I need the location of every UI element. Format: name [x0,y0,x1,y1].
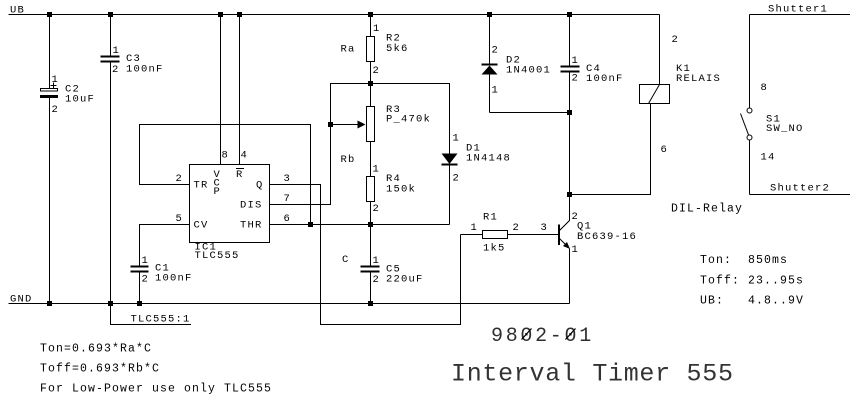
junction GND/C5 [368,301,373,306]
svg-text:DIS: DIS [240,200,263,212]
svg-text:2: 2 [373,203,381,215]
svg-text:2: 2 [492,45,500,57]
svg-text:2: 2 [373,65,381,77]
junction UB/pin4 [237,12,242,17]
svg-text:4: 4 [241,150,249,162]
wire node to Q1 collector [560,195,570,231]
transistor Q1 base bar [558,225,560,246]
wire D1 cathode to THR line [449,166,451,225]
svg-text:1: 1 [142,255,150,267]
junction node Ra/Rb at R2 bottom [368,81,373,86]
junction R4/C5/THR [368,222,373,227]
relay K1 coil box [640,85,670,104]
junction GND/C1 [137,301,142,306]
capacitor C2 plate 2 [40,95,58,98]
wire relay K1 pin 6 down to node [570,104,651,195]
svg-text:P: P [214,186,222,198]
wire Shutter1 net [750,14,850,16]
svg-text:Toff=0.693*Rb*C: Toff=0.693*Rb*C [40,363,160,376]
wire GND rail [9,303,570,305]
svg-text:Ra: Ra [341,44,356,56]
junction C4 line / relay pin 6 [567,192,572,197]
svg-text:14: 14 [761,152,776,164]
switch S1 bottom contact circle [747,135,752,140]
svg-text:C: C [342,254,350,266]
wire C4/D2 node to relay node [569,113,571,195]
wire C1 bottom to GND [139,273,141,304]
wire relay K1 pin 2 from UB rail [659,15,661,85]
capacitor C3 plate 2 [101,61,120,63]
svg-text:Q: Q [256,180,264,192]
relay K1 coil diagonal [649,85,660,104]
wire IC1 pin 4 to UB rail [239,15,241,165]
wire CV pin 5 to C1 [140,225,190,266]
svg-text:150k: 150k [386,184,416,196]
resistor R4 body [367,177,375,202]
svg-text:1: 1 [373,164,381,176]
svg-text:UB: 4.8..9V: UB: 4.8..9V [700,295,804,308]
junction UB/C4 [567,12,572,17]
svg-text:8: 8 [222,150,230,162]
wire TLC555 pin 1 GND tag [111,304,192,325]
svg-text:Shutter1: Shutter1 [768,4,828,16]
svg-text:Ton=0.693*Ra*C: Ton=0.693*Ra*C [40,343,152,356]
wire C4 top to UB rail [569,15,571,66]
wire C5 bottom to GND [370,273,372,304]
svg-text:2: 2 [52,104,60,116]
transistor Q1 emitter line [560,239,567,246]
svg-text:TLC555:1: TLC555:1 [131,314,191,326]
svg-text:BC639-16: BC639-16 [577,231,637,243]
svg-text:2: 2 [672,34,680,46]
capacitor C2 plate 1 [41,89,58,92]
svg-text:6: 6 [284,213,292,225]
svg-text:Interval Timer 555: Interval Timer 555 [451,360,734,389]
wire C3 bottom to GND [110,63,112,304]
wire Q1 emitter to GND rail [569,249,571,304]
svg-text:2: 2 [176,173,184,185]
svg-text:1N4001: 1N4001 [506,65,551,77]
wire DIS pin 7 up to Ra/Rb node [270,84,371,205]
svg-text:1k5: 1k5 [483,243,506,255]
potentiometer R3 wiper arrowhead [358,121,366,129]
svg-text:R: R [236,169,244,181]
svg-text:5k6: 5k6 [386,43,409,55]
svg-text:Ton: 850ms: Ton: 850ms [700,254,788,267]
wire D2 anode to C4 line [490,112,570,114]
wire Q pin 3 output to R1 [270,185,461,325]
svg-text:2: 2 [373,274,381,286]
svg-text:1: 1 [113,45,121,57]
svg-text:9802-01: 9802-01 [491,325,594,348]
capacitor C2 plus sign [51,83,57,89]
svg-text:220uF: 220uF [386,274,424,286]
wire UB power rail [9,14,660,16]
svg-text:7: 7 [284,193,292,205]
svg-text:6: 6 [661,144,669,156]
svg-text:1: 1 [373,255,381,267]
wire D2 cathode to UB rail [489,15,491,64]
wire R2 bottom to node [370,62,372,84]
diode D2 triangle [482,66,498,75]
svg-text:5: 5 [176,213,184,225]
svg-text:1: 1 [492,85,500,97]
capacitor C3 plate 1 [101,56,120,58]
wire TR pin 2 loop to THR node [140,125,311,225]
svg-text:Rb: Rb [341,154,356,166]
svg-text:P_470k: P_470k [386,114,431,126]
junction UB/C2 [47,12,52,17]
svg-text:SW_NO: SW_NO [766,123,804,135]
wire C3 top [110,15,112,56]
svg-text:DIL-Relay: DIL-Relay [671,203,743,216]
capacitor C5 plate 1 [361,266,380,268]
wire IC1 pin 8 to UB rail [220,15,222,165]
wire R3 wiper [331,124,359,126]
resistor R1 body [483,231,508,239]
svg-text:10uF: 10uF [65,94,95,106]
junction GND/C2 [47,301,52,306]
capacitor C4 plate 1 [561,66,580,68]
wire C4 bottom [569,73,571,113]
junction UB/pin8 [218,12,223,17]
junction UB/R2 [368,12,373,17]
svg-text:GND: GND [10,294,33,306]
svg-text:THR: THR [240,220,263,232]
switch S1 top contact circle [747,108,752,113]
transistor Q1 emitter arrowhead [563,242,570,249]
svg-text:TLC555: TLC555 [195,250,240,262]
junction UB/C3 [108,12,113,17]
svg-text:2: 2 [142,274,150,286]
capacitor C1 plate 1 [131,266,149,268]
slash of first zero in 9802-01 [522,329,532,340]
svg-text:For Low-Power use only TLC555: For Low-Power use only TLC555 [40,383,272,396]
potentiometer R3 body [367,107,375,142]
wire C2 top [49,15,51,89]
svg-text:Toff: 23..95s: Toff: 23..95s [700,275,804,288]
wire node Ra/Rb to D1 anode [371,84,450,154]
junction UB/D2 [487,12,492,17]
svg-text:2: 2 [572,73,580,85]
svg-text:2: 2 [453,173,461,185]
diode D2 cathode bar [482,64,498,66]
svg-text:TR: TR [194,180,209,192]
svg-text:3: 3 [284,173,292,185]
svg-text:Shutter2: Shutter2 [770,183,830,195]
wire C5 top to THR line [370,225,372,266]
svg-text:2: 2 [513,222,521,234]
svg-text:CV: CV [194,220,209,232]
svg-text:UB: UB [10,5,25,17]
svg-text:1: 1 [52,74,60,86]
svg-text:8: 8 [761,82,769,94]
resistor R2 body [367,37,375,62]
wire R1 right lead to Q1 base [508,234,559,236]
wire THR pin 6 line [270,224,450,226]
wire D2 anode down [489,75,491,113]
wire Shutter2 net [750,194,850,196]
svg-text:100nF: 100nF [155,273,193,285]
wire C2 bottom to GND [49,98,51,304]
switch S1 blade [741,114,749,136]
wire R2 top to UB rail [370,15,372,37]
junction GND/C3 [108,301,113,306]
svg-text:R1: R1 [483,212,498,224]
capacitor C5 plate 2 [361,271,380,273]
svg-text:1: 1 [373,23,381,35]
wire R3 bottom to R4 top [370,142,372,177]
wire R1 left lead [461,234,483,236]
op-amp IC1 TLC555 box [190,165,270,243]
capacitor C4 plate 2 [561,71,580,73]
junction TR loop / THR line [308,222,313,227]
wire R2/R3 link [370,84,372,107]
svg-text:100nF: 100nF [126,64,164,76]
svg-text:2: 2 [112,64,120,76]
svg-text:1: 1 [572,55,580,67]
svg-text:3: 3 [541,222,549,234]
svg-text:1: 1 [572,244,580,256]
junction D2/C4 [567,110,572,115]
wire R4 bottom to THR line [370,202,372,225]
slash of second zero in 9802-01 [566,329,576,340]
junction R3 wiper / DIS [328,122,333,127]
svg-text:1: 1 [453,133,461,145]
svg-text:1N4148: 1N4148 [466,153,511,165]
diode D1 triangle [442,154,458,165]
wire S1 bottom lead [749,141,751,195]
capacitor C1 plate 2 [131,271,149,273]
wire S1 top lead [749,15,751,108]
diode D1 cathode bar [442,164,458,166]
svg-text:RELAIS: RELAIS [676,73,721,85]
svg-text:1: 1 [471,222,479,234]
svg-text:100nF: 100nF [586,73,624,85]
